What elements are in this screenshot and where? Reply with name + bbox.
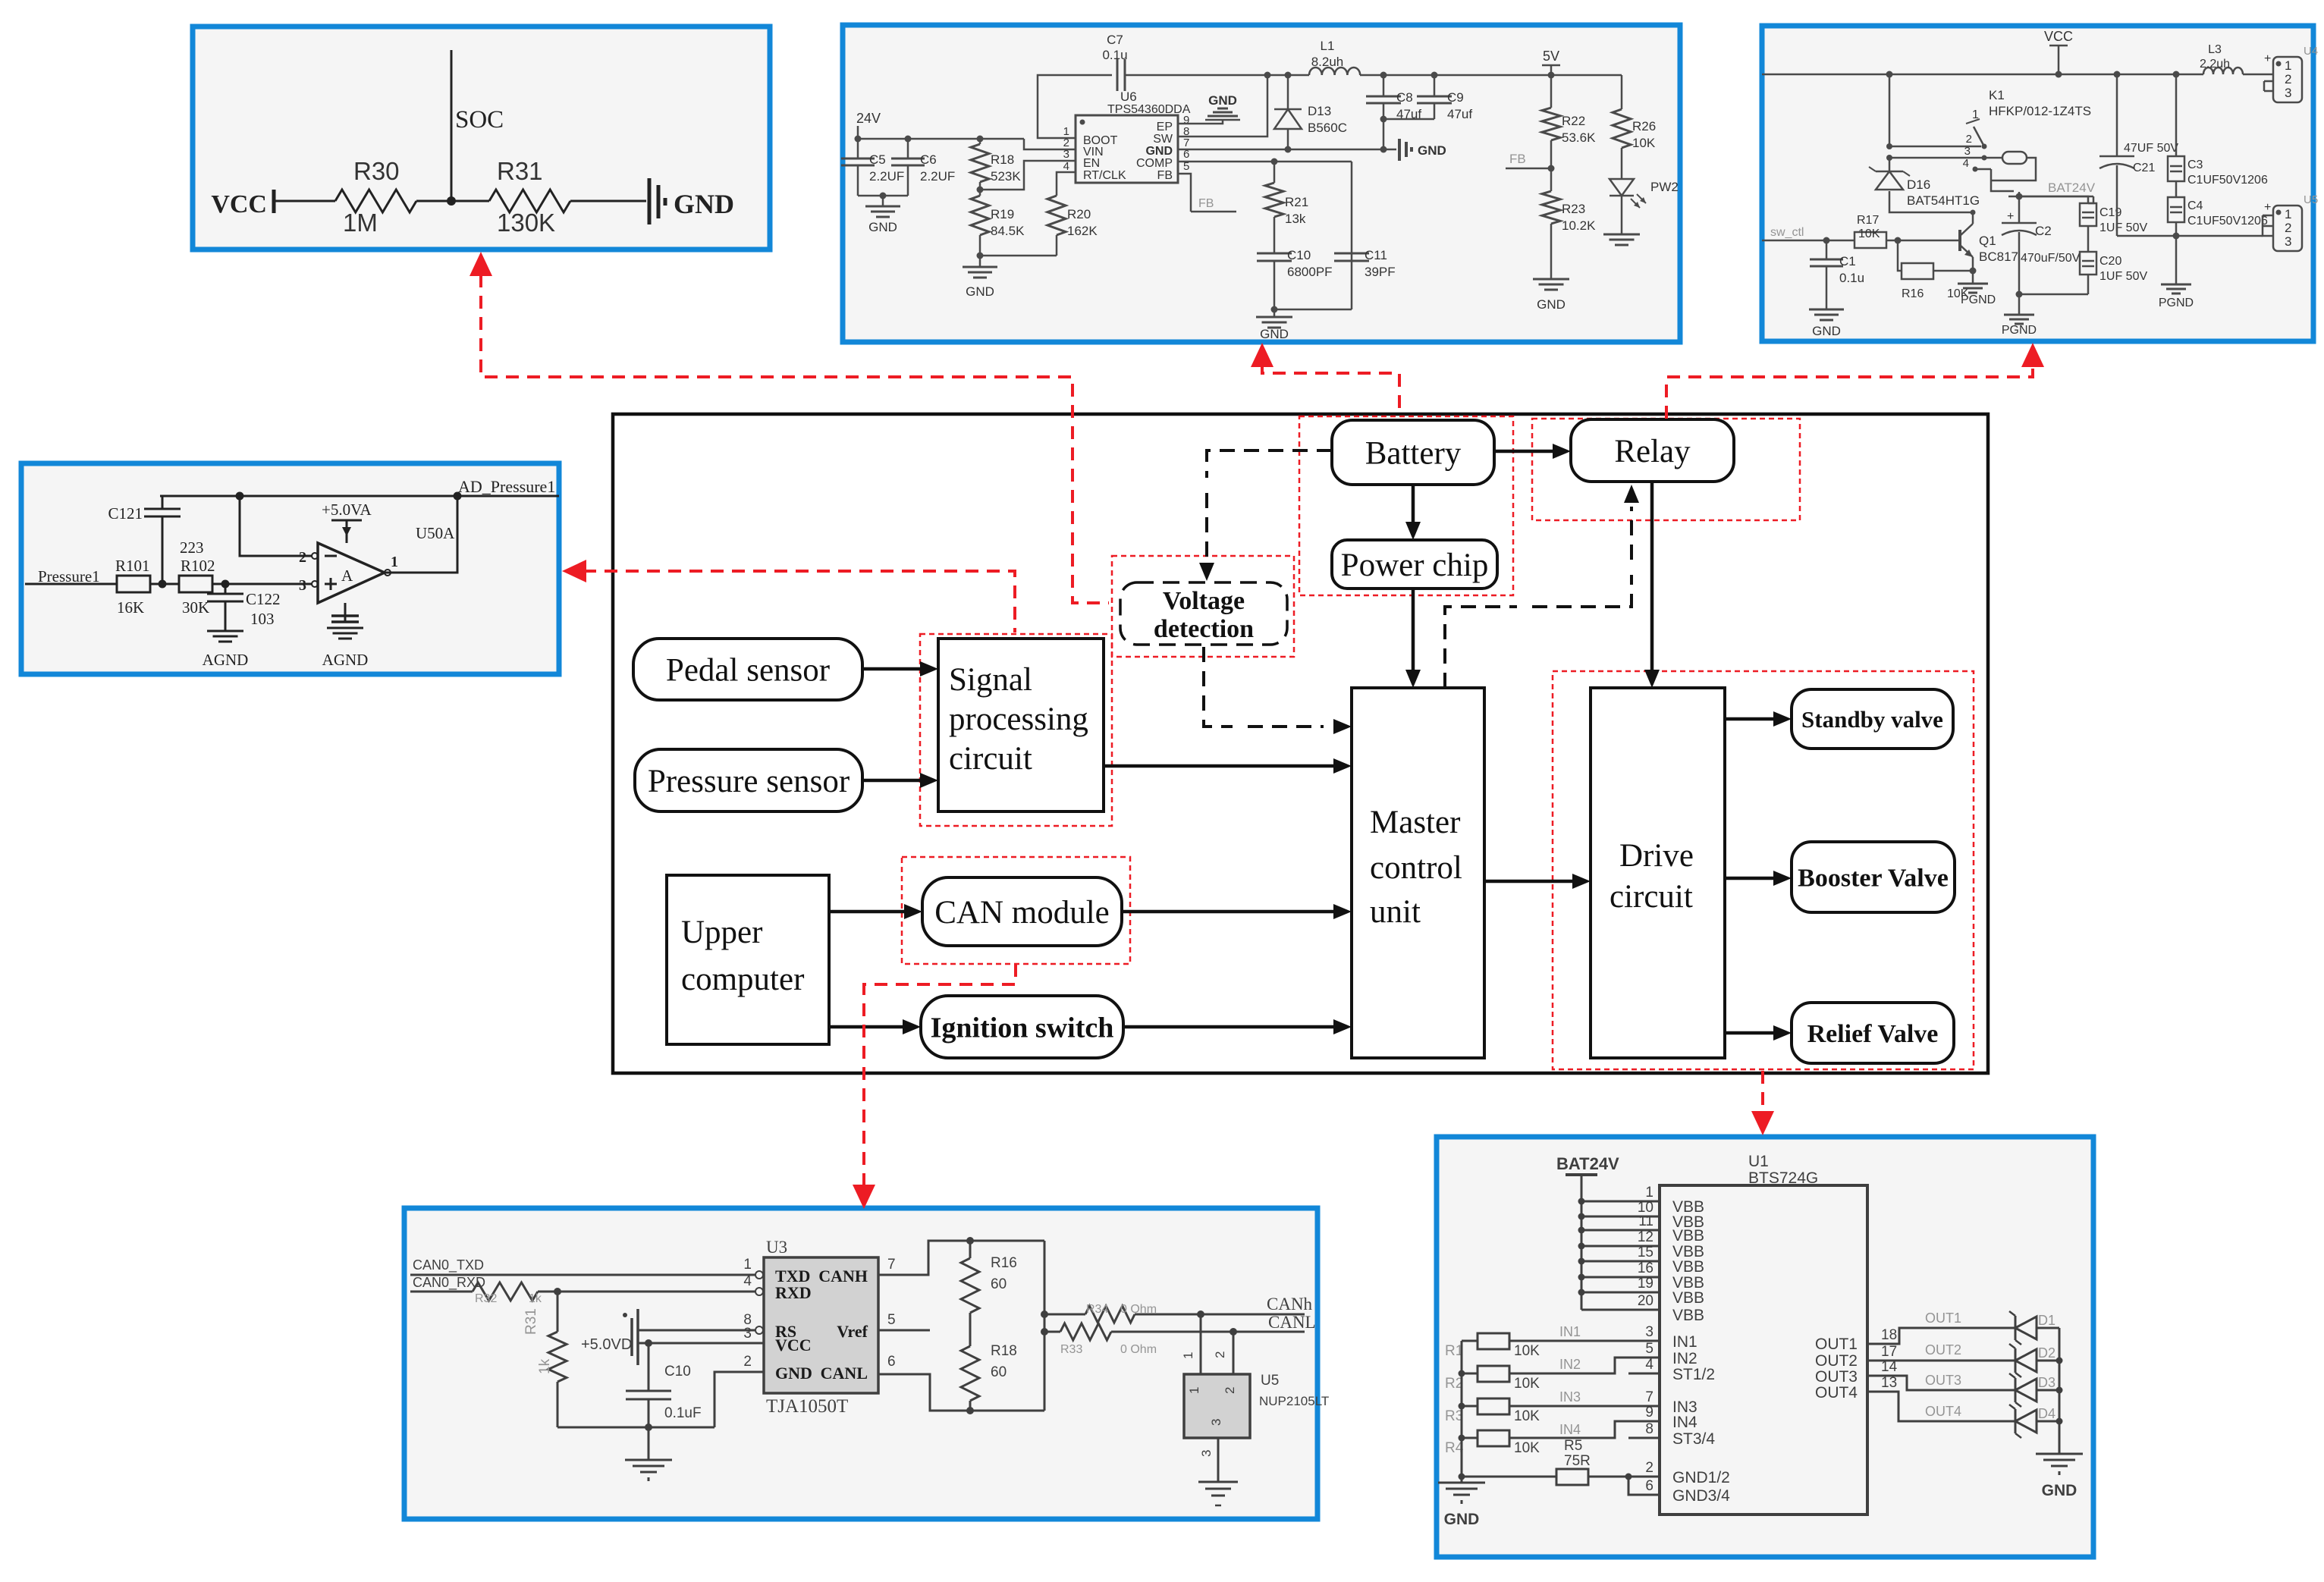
svg-text:R102: R102 xyxy=(181,557,215,575)
svg-text:523K: 523K xyxy=(991,169,1021,184)
svg-text:PGND: PGND xyxy=(1961,293,1996,306)
svg-text:20: 20 xyxy=(1638,1293,1653,1309)
svg-text:IN1: IN1 xyxy=(1672,1333,1697,1351)
wire C10/C11 bottoms to GND xyxy=(1274,309,1352,311)
red connector: SOC box to voltage detection xyxy=(470,252,492,276)
block Pedal sensor xyxy=(633,639,862,700)
wire 24V input rail xyxy=(858,138,1024,140)
svg-text:BC817: BC817 xyxy=(1979,250,2018,264)
resistor R22 53.6K xyxy=(1550,75,1553,108)
svg-text:OUT3: OUT3 xyxy=(1815,1368,1858,1386)
svg-text:C8: C8 xyxy=(1396,90,1413,105)
svg-text:1: 1 xyxy=(1181,1352,1195,1359)
pin 13 OUT4 wire xyxy=(1867,1392,2015,1421)
svg-text:5: 5 xyxy=(887,1312,896,1328)
diode D13 B560C xyxy=(1287,75,1289,109)
svg-text:circuit: circuit xyxy=(949,741,1032,777)
svg-text:D13: D13 xyxy=(1308,104,1331,118)
block Pressure sensor xyxy=(635,749,862,811)
svg-text:Standby valve: Standby valve xyxy=(1801,706,1943,733)
svg-text:R16: R16 xyxy=(991,1255,1017,1271)
svg-text:1k: 1k xyxy=(529,1292,542,1305)
svg-text:TJA1050T: TJA1050T xyxy=(766,1396,848,1417)
resistor R26 10K xyxy=(1621,75,1623,109)
svg-text:R30: R30 xyxy=(353,157,400,185)
svg-text:4: 4 xyxy=(1963,157,1969,170)
block Standby valve xyxy=(1792,689,1953,749)
svg-text:4: 4 xyxy=(743,1273,752,1289)
svg-text:3: 3 xyxy=(1209,1419,1223,1426)
resistor R16 60 xyxy=(961,1258,979,1313)
capacitor C7 0.1u xyxy=(1116,59,1119,91)
diode D4 xyxy=(2015,1409,2017,1433)
capacitor C6 2.2UF xyxy=(907,139,909,159)
capacitor C2 470uF/50V xyxy=(2018,192,2021,223)
ground AGND under op-amp xyxy=(344,603,347,622)
svg-text:2: 2 xyxy=(1645,1460,1653,1476)
arrow Signal processing to Master control unit xyxy=(1104,764,1333,768)
resistor R5 75R xyxy=(1462,1476,1556,1478)
svg-text:SW: SW xyxy=(1153,133,1173,146)
pin 19 VBB xyxy=(1581,1292,1660,1294)
svg-text:53.6K: 53.6K xyxy=(1562,130,1596,145)
svg-text:L1: L1 xyxy=(1321,39,1335,53)
svg-text:BTS724G: BTS724G xyxy=(1748,1169,1818,1187)
svg-text:Upper: Upper xyxy=(681,915,762,950)
svg-text:47uf: 47uf xyxy=(1447,107,1472,121)
resistor R23 10.2K xyxy=(1550,168,1553,191)
arrow Relay to Drive circuit xyxy=(1650,482,1654,670)
svg-text:OUT2: OUT2 xyxy=(1925,1342,1961,1358)
svg-text:AD_Pressure1: AD_Pressure1 xyxy=(458,477,555,496)
svg-text:7: 7 xyxy=(1645,1389,1653,1405)
svg-text:16K: 16K xyxy=(117,598,144,617)
resistor R2 10K xyxy=(1478,1366,1509,1382)
ground GND (terminal style) xyxy=(648,178,652,224)
svg-text:5: 5 xyxy=(1645,1341,1653,1357)
detail box: CAN transceiver TJA1050T xyxy=(404,1208,1317,1519)
op-amp U50A xyxy=(318,543,385,603)
system boundary rectangle xyxy=(613,414,1988,1073)
svg-text:IN2: IN2 xyxy=(1559,1357,1581,1372)
arrow Power chip to Master control unit xyxy=(1412,589,1415,670)
wire VCC pin xyxy=(638,1342,764,1345)
inductor L1 8.2uh xyxy=(1309,67,1360,75)
wire C5/C6 bottoms xyxy=(858,195,908,197)
svg-text:11: 11 xyxy=(1638,1213,1653,1229)
ground GND left xyxy=(1461,1477,1463,1483)
arrow Upper computer to Ignition switch xyxy=(829,1025,903,1029)
capacitor C1 0.1u xyxy=(1826,240,1828,259)
wire op-amp output xyxy=(385,496,457,573)
svg-text:IN2: IN2 xyxy=(1672,1350,1697,1367)
svg-text:D1: D1 xyxy=(2038,1313,2055,1328)
red dotted group: battery/power chip xyxy=(1299,416,1513,595)
pin 17 OUT2 wire xyxy=(1867,1360,2015,1362)
transistor Q1 BC817 xyxy=(1958,230,1961,251)
pin 12 VBB xyxy=(1581,1245,1660,1248)
pin 14 OUT3 wire xyxy=(1867,1376,2015,1390)
svg-text:2: 2 xyxy=(743,1354,752,1370)
ground PGND under C2 xyxy=(2004,314,2034,316)
svg-text:R33: R33 xyxy=(1060,1343,1082,1356)
arrow Pedal sensor to Signal processing xyxy=(862,667,920,671)
svg-text:24V: 24V xyxy=(856,111,881,126)
wire Vref stub xyxy=(878,1329,930,1332)
svg-text:VBB: VBB xyxy=(1672,1307,1704,1324)
arrow Drive circuit to Standby valve xyxy=(1725,717,1773,721)
svg-text:VBB: VBB xyxy=(1672,1289,1704,1307)
ground PGND under Q1 xyxy=(1972,271,1974,284)
block Signal processing circuit xyxy=(938,639,1104,811)
svg-text:6: 6 xyxy=(1645,1478,1653,1494)
svg-text:PGND: PGND xyxy=(2002,324,2037,337)
red dotted group: signal processing xyxy=(920,634,1112,826)
svg-text:R23: R23 xyxy=(1562,202,1585,216)
svg-text:CAN0_TXD: CAN0_TXD xyxy=(413,1257,484,1273)
svg-text:Master: Master xyxy=(1370,805,1460,840)
svg-text:PW2: PW2 xyxy=(1650,180,1679,194)
dashed arrow Battery to Voltage detection xyxy=(1207,450,1332,478)
resistor R30 xyxy=(335,190,416,212)
svg-text:GND: GND xyxy=(1418,143,1446,158)
svg-text:84.5K: 84.5K xyxy=(991,224,1025,238)
svg-text:GND: GND xyxy=(1208,93,1237,108)
block Ignition switch xyxy=(921,996,1123,1058)
svg-text:CANh: CANh xyxy=(1267,1295,1313,1314)
svg-text:0 Ohm: 0 Ohm xyxy=(1120,1303,1157,1316)
svg-text:R20: R20 xyxy=(1067,207,1091,221)
svg-text:2: 2 xyxy=(299,549,306,566)
ground AGND under C122 xyxy=(207,630,243,632)
svg-text:C21: C21 xyxy=(2133,162,2155,174)
pin 10 VBB xyxy=(1581,1216,1660,1218)
ground GND right xyxy=(2036,1453,2083,1455)
svg-text:FB: FB xyxy=(1509,152,1526,166)
svg-text:1: 1 xyxy=(2285,207,2291,221)
wire R18/R19 junction to EN pin xyxy=(980,161,1076,190)
svg-text:10K: 10K xyxy=(1858,228,1880,240)
svg-text:0.1u: 0.1u xyxy=(1839,271,1864,285)
wire diode common rail xyxy=(2059,1328,2061,1454)
svg-text:470uF/50V: 470uF/50V xyxy=(2021,252,2081,265)
wire R16 to emitter xyxy=(1933,270,1973,272)
svg-text:sw_ctl: sw_ctl xyxy=(1770,226,1804,239)
svg-text:R5: R5 xyxy=(1564,1438,1582,1454)
wire TXD xyxy=(410,1274,755,1276)
ground GND (terminal style) at pin7 xyxy=(1398,139,1401,161)
wire R19 bottom / R20 bottom xyxy=(980,255,1057,257)
svg-text:1k: 1k xyxy=(537,1358,553,1374)
svg-text:BAT24V: BAT24V xyxy=(1556,1154,1619,1173)
svg-text:R31: R31 xyxy=(497,157,543,185)
svg-text:BAT24V: BAT24V xyxy=(2048,180,2096,195)
svg-text:Vref: Vref xyxy=(837,1322,868,1341)
svg-text:R21: R21 xyxy=(1285,195,1308,209)
svg-text:1: 1 xyxy=(2285,58,2291,73)
red connector: relay group to relay box xyxy=(1666,364,2033,419)
svg-text:L3: L3 xyxy=(2208,43,2222,56)
ground GND under C5/C6 xyxy=(865,206,900,208)
wire R102 to pin 3 xyxy=(212,583,312,585)
svg-text:U5: U5 xyxy=(1261,1373,1279,1389)
svg-text:VCC: VCC xyxy=(775,1336,812,1354)
svg-text:3: 3 xyxy=(2285,86,2291,100)
resistor R34 0 Ohm xyxy=(1044,1314,1085,1316)
svg-text:Relay: Relay xyxy=(1614,434,1691,469)
wire R5 to GND pins xyxy=(1588,1476,1660,1478)
resistor R17 10K xyxy=(1854,232,1886,248)
svg-text:C6: C6 xyxy=(920,152,937,167)
dashed arrow Voltage detection to Master control unit xyxy=(1204,647,1233,727)
resistor R3 10K xyxy=(1478,1398,1509,1414)
wire U5 to ground xyxy=(1217,1438,1220,1482)
ground GND under C1 xyxy=(1809,309,1844,311)
svg-text:8: 8 xyxy=(1645,1421,1653,1437)
svg-text:3: 3 xyxy=(2285,234,2291,249)
connector U4 xyxy=(2243,74,2273,76)
svg-text:FB: FB xyxy=(1157,169,1173,182)
svg-text:3: 3 xyxy=(1964,145,1971,158)
ground GND under U5 xyxy=(1198,1481,1238,1483)
wire C9 bottom to C8 column xyxy=(1383,118,1434,121)
svg-text:19: 19 xyxy=(1638,1276,1653,1292)
svg-text:1UF 50V: 1UF 50V xyxy=(2099,270,2147,283)
wire R31 to GND xyxy=(570,200,646,202)
wire RS pin xyxy=(638,1329,755,1332)
pin 11 VBB xyxy=(1581,1229,1660,1232)
svg-text:0.1u: 0.1u xyxy=(1102,48,1127,62)
wire BOOT bootstrap xyxy=(1038,75,1112,138)
svg-text:18: 18 xyxy=(1881,1327,1897,1343)
block Drive circuit xyxy=(1591,688,1725,1058)
red dotted group: relay xyxy=(1532,419,1800,520)
svg-text:D3: D3 xyxy=(2038,1375,2055,1390)
svg-text:12: 12 xyxy=(1638,1229,1653,1245)
svg-text:3: 3 xyxy=(1063,148,1069,161)
resistor R31 xyxy=(489,190,570,212)
pin 15 VBB xyxy=(1581,1260,1660,1263)
svg-text:GND: GND xyxy=(1537,297,1566,312)
svg-text:10K: 10K xyxy=(1514,1440,1540,1456)
svg-text:GND: GND xyxy=(674,189,734,219)
wire pin4 to coil return xyxy=(1975,168,1991,171)
svg-text:5V: 5V xyxy=(1543,49,1559,64)
svg-text:1: 1 xyxy=(1645,1185,1653,1201)
resistor R31 vertical xyxy=(557,1292,559,1332)
block CAN module xyxy=(922,877,1122,946)
arrow Battery to Relay xyxy=(1494,450,1553,454)
diode D16 BAT54HT1G xyxy=(1889,158,1891,171)
svg-text:OUT1: OUT1 xyxy=(1815,1336,1858,1353)
svg-text:R18: R18 xyxy=(991,1343,1017,1359)
dashed arrow Master control unit to Relay xyxy=(1445,607,1517,688)
svg-text:2: 2 xyxy=(1966,133,1972,146)
svg-text:IN4: IN4 xyxy=(1672,1414,1697,1431)
svg-text:16: 16 xyxy=(1638,1260,1653,1276)
svg-text:R22: R22 xyxy=(1562,114,1585,128)
svg-text:130K: 130K xyxy=(497,209,555,237)
resistor R21 13k xyxy=(1273,162,1276,183)
svg-text:GND: GND xyxy=(966,284,994,299)
capacitor C21 47UF 50V xyxy=(2116,74,2118,156)
svg-text:+: + xyxy=(2264,52,2271,65)
svg-text:BAT54HT1G: BAT54HT1G xyxy=(1907,193,1980,208)
svg-text:R34: R34 xyxy=(1086,1303,1108,1316)
svg-text:PGND: PGND xyxy=(2159,297,2194,309)
svg-text:U5: U5 xyxy=(2304,193,2318,206)
pin 16 VBB xyxy=(1581,1276,1660,1279)
net IN2 wire to pin 5 xyxy=(1509,1358,1660,1373)
capacitor C20 1UF 50V xyxy=(2087,226,2090,252)
svg-text:D4: D4 xyxy=(2038,1406,2055,1421)
svg-text:162K: 162K xyxy=(1067,224,1098,238)
arrow Master control unit to Drive circuit xyxy=(1484,880,1572,884)
svg-text:Q1: Q1 xyxy=(1979,234,1996,248)
svg-text:C1: C1 xyxy=(1839,254,1856,268)
svg-text:FB: FB xyxy=(1198,197,1214,210)
svg-text:unit: unit xyxy=(1370,894,1421,930)
svg-text:IN3: IN3 xyxy=(1559,1389,1581,1405)
svg-text:VBB: VBB xyxy=(1672,1227,1704,1245)
diode D2 xyxy=(2015,1348,2017,1373)
capacitor C11 39PF xyxy=(1334,253,1369,255)
svg-text:C19: C19 xyxy=(2099,206,2121,219)
block Upper computer xyxy=(667,875,829,1044)
svg-text:NUP2105LT: NUP2105LT xyxy=(1259,1394,1329,1408)
resistor R18 523K xyxy=(971,144,989,182)
svg-text:15: 15 xyxy=(1638,1245,1653,1260)
svg-text:Battery: Battery xyxy=(1365,436,1462,472)
resistor R18 60 xyxy=(961,1346,979,1401)
red connector: drive group to BTS724G box xyxy=(1761,1071,1764,1110)
svg-text:223: 223 xyxy=(180,538,204,557)
wire termination right rail xyxy=(1044,1241,1046,1411)
svg-text:AGND: AGND xyxy=(203,651,249,669)
svg-text:0 Ohm: 0 Ohm xyxy=(1120,1343,1157,1356)
svg-text:GND: GND xyxy=(775,1364,812,1383)
svg-text:U50A: U50A xyxy=(416,524,455,542)
svg-text:C122: C122 xyxy=(246,590,281,608)
ground GND under R23 xyxy=(1533,278,1569,281)
pin 1 VBB xyxy=(1581,1201,1660,1203)
capacitor C122 103 xyxy=(225,584,227,594)
svg-text:60: 60 xyxy=(991,1276,1007,1292)
LED PW2 xyxy=(1610,179,1634,196)
svg-text:2.2UF: 2.2UF xyxy=(869,169,904,184)
wire CANL to termination xyxy=(878,1374,1044,1411)
svg-text:OUT3: OUT3 xyxy=(1925,1373,1961,1388)
op chip U6 TPS54360DDA xyxy=(1076,115,1178,183)
svg-text:C1UF50V1206: C1UF50V1206 xyxy=(2187,215,2268,228)
relay coil xyxy=(2002,152,2027,164)
svg-text:processing: processing xyxy=(949,702,1088,737)
svg-text:8.2uh: 8.2uh xyxy=(1311,55,1344,69)
svg-text:RXD: RXD xyxy=(775,1283,812,1302)
svg-text:3: 3 xyxy=(1199,1450,1214,1457)
svg-text:4: 4 xyxy=(1063,160,1069,173)
svg-text:+: + xyxy=(2264,201,2271,214)
svg-text:U1: U1 xyxy=(1748,1153,1769,1170)
node SOC xyxy=(451,50,453,201)
svg-text:B560C: B560C xyxy=(1308,121,1347,135)
wire D16 to Q1 collector xyxy=(1889,191,1973,212)
svg-text:RT/CLK: RT/CLK xyxy=(1083,169,1126,182)
svg-text:CANH: CANH xyxy=(818,1267,868,1285)
svg-text:1: 1 xyxy=(1187,1387,1201,1394)
detail box: valve driver BTS724G xyxy=(1437,1137,2093,1557)
svg-text:detection: detection xyxy=(1154,615,1254,643)
svg-text:Pedal sensor: Pedal sensor xyxy=(666,653,830,689)
svg-text:+5.0VD: +5.0VD xyxy=(581,1336,632,1353)
resistor R20 162K xyxy=(1047,196,1066,235)
svg-text:control: control xyxy=(1370,850,1462,886)
chip U5 NUP2105LT xyxy=(1184,1374,1250,1438)
red dotted group: drive circuit and valves xyxy=(1553,671,1974,1069)
svg-text:10K: 10K xyxy=(1514,1408,1540,1424)
capacitor C3 C1UF50V1206 xyxy=(2175,74,2178,156)
capacitor C9 47uf xyxy=(1434,75,1436,96)
block Battery xyxy=(1332,420,1494,485)
wire input rail xyxy=(1461,1341,1463,1477)
capacitor C5 2.2UF xyxy=(857,139,859,159)
svg-text:circuit: circuit xyxy=(1610,879,1693,915)
svg-text:9: 9 xyxy=(1645,1405,1653,1420)
svg-text:2.2UF: 2.2UF xyxy=(920,169,955,184)
wire SW pin to top rail xyxy=(1178,75,1267,137)
svg-text:Drive: Drive xyxy=(1619,838,1694,874)
svg-text:K1: K1 xyxy=(1989,88,2005,102)
resistor R102 30K xyxy=(179,576,212,592)
net IN3 wire to pin 7 xyxy=(1509,1405,1660,1408)
svg-text:Relief Valve: Relief Valve xyxy=(1807,1020,1939,1048)
svg-text:COMP: COMP xyxy=(1136,157,1173,170)
svg-text:7: 7 xyxy=(887,1257,896,1273)
svg-text:VCC: VCC xyxy=(211,190,267,218)
svg-text:Power chip: Power chip xyxy=(1341,548,1489,583)
svg-text:Ignition switch: Ignition switch xyxy=(931,1012,1114,1044)
ground PGND under C4 xyxy=(2175,236,2178,284)
arrow Drive circuit to Booster Valve xyxy=(1725,877,1773,880)
svg-text:ST1/2: ST1/2 xyxy=(1672,1366,1715,1383)
inductor L3 2.2uh xyxy=(2203,67,2243,74)
svg-text:30K: 30K xyxy=(182,598,209,617)
block Master control unit xyxy=(1352,688,1484,1058)
diode D1 xyxy=(2015,1316,2017,1340)
svg-text:1: 1 xyxy=(1972,108,1979,121)
svg-text:C121: C121 xyxy=(108,504,143,523)
svg-text:2.2uh: 2.2uh xyxy=(2200,58,2230,71)
svg-text:GND3/4: GND3/4 xyxy=(1672,1487,1730,1505)
svg-text:R17: R17 xyxy=(1857,214,1879,227)
svg-text:C7: C7 xyxy=(1107,33,1123,47)
wire VBB bus xyxy=(1581,1201,1583,1310)
svg-text:2: 2 xyxy=(2285,221,2291,235)
wire BAT24V rail to C19 column xyxy=(2019,196,2088,203)
wire R30 to node SOC xyxy=(416,200,489,202)
svg-text:0.1uF: 0.1uF xyxy=(664,1405,702,1421)
svg-text:10K: 10K xyxy=(1632,136,1656,150)
svg-text:6: 6 xyxy=(887,1354,896,1370)
ground GND under C10 xyxy=(1256,316,1292,319)
svg-text:17: 17 xyxy=(1881,1344,1897,1360)
red dotted group: voltage detection xyxy=(1112,556,1294,657)
svg-text:R26: R26 xyxy=(1632,119,1656,133)
connector U5 (TR box) xyxy=(2273,206,2302,251)
svg-text:1UF 50V: 1UF 50V xyxy=(2099,221,2147,234)
net IN1 wire to pin 3 xyxy=(1509,1340,1660,1342)
svg-text:Signal: Signal xyxy=(949,662,1032,698)
